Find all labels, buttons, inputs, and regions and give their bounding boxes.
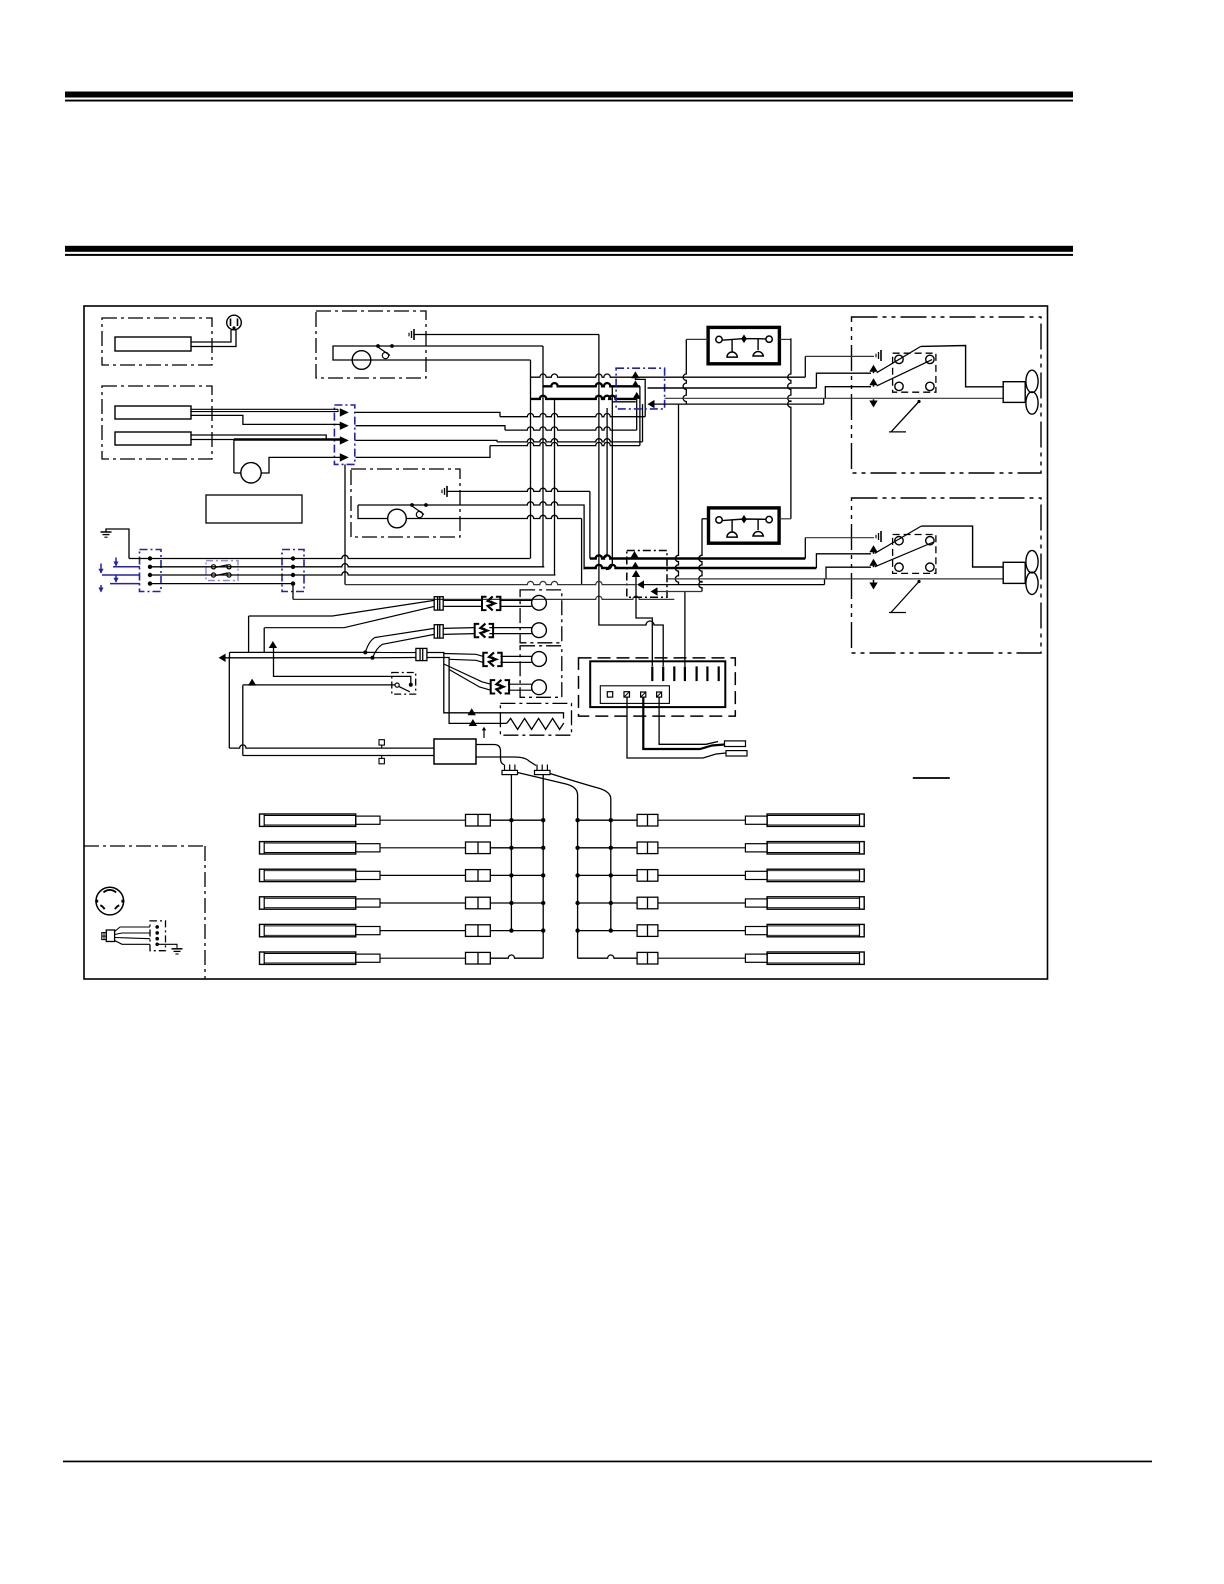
OL2 heater contacts: [731, 520, 733, 532]
freezer lamp element: [115, 337, 191, 351]
indicator lamp: [227, 315, 242, 330]
OL2 lead right: [779, 518, 791, 520]
module vent arrow: [483, 729, 485, 738]
CN5 arrow3 stem: [636, 576, 652, 666]
D arrow2 riser: [826, 567, 871, 579]
cord plug connector: [150, 921, 166, 951]
diagram outer border: [84, 306, 1048, 979]
heater feed wires: [427, 653, 564, 719]
igniter R4 wire: [578, 902, 638, 904]
F2-valve2 wires: [489, 627, 531, 629]
wire element A top to CN1: [191, 408, 338, 410]
U arrow up 2: [869, 378, 877, 385]
C3-F3 diag wires: [444, 654, 484, 657]
branch to C2a: [365, 628, 434, 652]
interlock switch (light blue): [206, 561, 238, 581]
OL1 lead left: [686, 338, 708, 340]
lamp enclosure 2: [102, 386, 212, 459]
C1-F1 wires: [443, 599, 482, 601]
cord ground wire: [157, 944, 177, 948]
footer rule: [63, 1461, 1152, 1463]
board terminal strip: [600, 686, 669, 704]
lamp wires: [191, 330, 231, 342]
row LR2: [505, 427, 637, 430]
cord connector body: [106, 930, 114, 942]
control thermostat T2 enclosure: [351, 469, 460, 537]
OL2 terminals: [716, 517, 722, 523]
CN2 pins: [148, 556, 152, 560]
fork feeds right: [518, 773, 578, 796]
igniter rod R5: [767, 924, 864, 936]
bold row to CN5-2: [584, 565, 816, 568]
harness riser b: [263, 628, 265, 653]
long bus d1c: [606, 386, 612, 569]
nest arrow2 link: [639, 386, 641, 445]
U motor row: [665, 397, 1004, 399]
LR1 jog: [356, 412, 501, 416]
LR2 jog: [356, 426, 506, 430]
wire element B top: [191, 435, 326, 440]
igniter rod L5: [260, 924, 356, 936]
model nameplate: [206, 495, 302, 523]
igniter L4 wire: [490, 902, 543, 904]
board drop 4: [684, 592, 686, 667]
CN3 pins: [291, 556, 295, 560]
up arrow junction: [269, 641, 277, 648]
OL1 center pivot: [741, 335, 747, 344]
surface unit box B: [520, 646, 562, 698]
LR3 jog: [356, 440, 498, 442]
row to C3a: [365, 651, 416, 653]
OL1 bimetal bar: [722, 339, 766, 341]
U actuator mark: [891, 402, 919, 432]
long bus d2: [598, 335, 600, 619]
board output wire 1: [627, 697, 726, 758]
D propeller: [1026, 551, 1038, 573]
T1 contacts: [376, 344, 380, 348]
CN4 arrow1: [631, 371, 639, 378]
cable connector C3: [416, 648, 427, 660]
row to CN4 pin3: [531, 396, 637, 399]
U fan motor: [1003, 382, 1025, 403]
bus V1: [530, 360, 532, 559]
power wire row2: [150, 564, 544, 567]
board output wire 2: [643, 697, 724, 749]
CN5 left arrow2 wire: [658, 591, 703, 593]
OL1 terminals: [716, 336, 722, 342]
CN4 arrow3: [633, 392, 641, 399]
burner valve circle 1: [532, 595, 547, 610]
T1 ground wire: [414, 334, 599, 336]
igniter rod R2: [767, 842, 864, 854]
igniter R3 wire: [578, 874, 638, 876]
strip terminal 3: [641, 692, 646, 697]
nest LR3 link: [642, 404, 644, 442]
cord wires: [115, 927, 150, 932]
row LR1: [500, 414, 645, 417]
T2 ground wire: [447, 488, 590, 491]
harness row lower b: [226, 657, 373, 659]
power wire row3: [150, 572, 555, 575]
D arrow up 1: [869, 545, 877, 552]
A-arrow 2: [248, 679, 256, 686]
T2 motor wire right: [406, 515, 581, 518]
cable connector C2: [434, 625, 443, 638]
igniter rod L3: [260, 869, 356, 881]
CN5 left arrow2: [651, 587, 658, 595]
wire to motor: [233, 440, 235, 474]
U blade 1: [877, 346, 921, 372]
top double rule: [65, 92, 1073, 98]
power wire row4: [150, 583, 293, 585]
relay switch block D: [893, 535, 936, 574]
module input wire 2: [243, 755, 434, 757]
board output wire 3: [659, 697, 718, 744]
U arrow2 riser: [825, 387, 871, 398]
bus B4: [610, 799, 612, 931]
OL2 lead left: [702, 518, 709, 520]
T1 chassis ground: [413, 329, 415, 340]
aux switch feed: [243, 684, 395, 686]
strip terminal 1: [607, 692, 612, 697]
suppressor 2: [379, 758, 384, 763]
supply lead L1 mark: [113, 566, 140, 568]
overload relay OL1 case: [708, 327, 779, 363]
wire element B bottom heavy: [191, 439, 234, 441]
U propeller: [1026, 370, 1038, 392]
CN5 left arrow1: [637, 580, 644, 588]
row LR3: [497, 439, 643, 442]
door switch motor: [241, 463, 261, 483]
igniter rod L1: [260, 814, 356, 826]
plug slots: [104, 890, 117, 893]
harness connector CN1: [334, 405, 354, 464]
F1-valve1 wires: [500, 599, 531, 601]
nest stub row: [612, 401, 636, 403]
OL1 lead right: [779, 338, 791, 340]
bus B2: [542, 775, 544, 959]
suppressor 1: [379, 740, 384, 745]
D chassis ground: [880, 531, 882, 542]
nest arrow1 link: [635, 377, 645, 417]
D blade 1: [875, 526, 921, 553]
wire element A bottom: [191, 415, 340, 425]
board inner case: [590, 661, 725, 707]
igniter rod L4: [260, 897, 356, 909]
interlock contacts: [211, 565, 215, 569]
module output 1: [476, 745, 504, 765]
CN4 left arrow wire: [655, 403, 824, 405]
U down arrow: [869, 401, 877, 408]
igniter switch F3: [483, 653, 488, 666]
bus B1: [510, 775, 512, 931]
U top wire: [921, 346, 1003, 387]
igniter R1 wire: [578, 819, 638, 821]
junction drop right: [274, 647, 411, 685]
lamp element B: [115, 432, 191, 445]
LR4 jog: [356, 446, 491, 458]
U arrow up 1: [869, 365, 877, 372]
module output 2: [476, 757, 536, 766]
wire motor to CN1 pin4: [261, 457, 340, 473]
igniter rod L2: [260, 842, 356, 854]
T2 switch wire right: [358, 502, 584, 505]
igniter R5 wire: [578, 930, 638, 932]
T2 sensing bulb: [358, 505, 388, 519]
aux switch: [395, 683, 399, 687]
D actuator mark: [891, 582, 919, 613]
evaporator fan unit enclosure: [852, 498, 1042, 653]
burner valve circle 3: [532, 652, 547, 667]
cord earth ground: [172, 948, 183, 950]
aux switch box: [392, 673, 416, 695]
spark module: [434, 739, 476, 764]
T2 bellows motor: [388, 509, 407, 528]
second double rule: [65, 246, 1073, 252]
surface unit box A: [520, 590, 562, 643]
F4-valve4 wires: [508, 683, 532, 685]
igniter L5 wire: [490, 930, 543, 932]
D motor row: [667, 578, 1003, 580]
strip terminal 2: [624, 692, 630, 697]
overload relay OL2 case: [709, 508, 780, 543]
harness wire to C1b: [264, 606, 434, 627]
U ground jog: [804, 356, 806, 377]
D top wire: [921, 526, 1003, 567]
distribution fork 2: [535, 770, 551, 774]
LA1 row left: [345, 581, 637, 584]
mid drop b: [583, 505, 585, 570]
D ground jog: [804, 538, 806, 559]
igniter rod R3: [767, 869, 864, 881]
igniter L6 wire: [490, 955, 543, 958]
heater connector arrow 2: [469, 719, 477, 726]
spark module board outline: [579, 658, 736, 716]
igniter switch F2: [475, 624, 480, 637]
strip terminal 4: [657, 692, 662, 697]
service area box: [84, 845, 205, 847]
OL2 bimetal bar: [722, 519, 766, 521]
U feed row2: [648, 387, 817, 389]
CN5 arrow2: [631, 562, 639, 569]
neutral run to board: [293, 596, 674, 599]
bus B3: [577, 795, 579, 958]
T1 sensing bulb: [333, 346, 543, 360]
power connector CN3: [282, 550, 304, 592]
burner valve circle 4: [532, 680, 547, 695]
cord pins: [155, 925, 159, 929]
row to C3b: [373, 657, 417, 659]
U ground wire: [805, 355, 874, 357]
igniter rod R6: [767, 952, 864, 964]
row to CN4 pin2: [543, 383, 640, 386]
U blade 2: [877, 360, 932, 386]
row to CN4 pin1: [531, 374, 806, 377]
board comb terminals: [651, 666, 653, 681]
harness connector CN5: [627, 551, 667, 598]
condenser fan unit enclosure: [852, 317, 1042, 473]
power plug face: [96, 887, 124, 915]
OL2 center pivot: [741, 515, 747, 524]
bus V3: [554, 399, 556, 575]
earth ground main: [101, 531, 112, 533]
mid drop c: [581, 519, 583, 585]
CN1 pin arrows: [340, 408, 349, 416]
harness connector CN4: [616, 368, 665, 409]
link upper-lower LA: [675, 404, 678, 584]
cord connector key: [102, 933, 107, 940]
D contacts: [895, 537, 903, 545]
board lug 2: [726, 751, 747, 756]
CN4 left arrow: [648, 400, 655, 408]
relay feeder left: [683, 339, 686, 404]
heater enclosure: [500, 703, 571, 735]
branch to C2b: [373, 634, 435, 657]
burner valve circle 2: [532, 623, 547, 638]
label tick: [913, 777, 950, 779]
D ground wire: [805, 537, 874, 539]
bus V2: [542, 346, 544, 567]
D blade 2: [875, 542, 934, 567]
row LR4: [490, 442, 640, 445]
long bus d1b: [606, 408, 608, 553]
harness row lower a: [230, 651, 366, 653]
C2-F2 wires: [443, 627, 475, 630]
T1 bellows motor: [352, 351, 371, 370]
supply lead N mark: [102, 574, 140, 576]
igniter switch F4: [491, 680, 496, 693]
igniter L2 wire: [490, 847, 543, 849]
harness wire to C1a: [249, 600, 435, 616]
LA1 row right: [644, 584, 825, 586]
CN4 arrow2: [631, 380, 639, 387]
T2 contacts: [410, 503, 414, 507]
OL2 feeder left: [699, 519, 702, 592]
power row4 drop: [292, 584, 294, 600]
distribution fork 1: [502, 770, 518, 774]
CN5 arrow1: [630, 551, 638, 558]
freezer lamp enclosure: [102, 318, 212, 365]
U contacts: [895, 355, 903, 363]
nest arrow3 link: [636, 399, 638, 430]
input riser 2: [242, 685, 244, 755]
D arrow up 2: [869, 559, 877, 566]
left arrow junction: [219, 654, 226, 662]
control thermostat T1 enclosure: [316, 311, 426, 378]
T2 chassis ground: [446, 486, 448, 497]
ground feed wire: [106, 529, 129, 559]
U chassis ground: [880, 350, 882, 361]
igniter L1 wire: [490, 819, 543, 821]
junction jog: [229, 652, 231, 657]
D arrow1 row: [816, 554, 871, 568]
supply lead L2 mark: [110, 583, 140, 585]
C3-F4 diag wires: [444, 664, 491, 684]
igniter rod R4: [767, 897, 864, 909]
igniter L3 wire: [490, 874, 543, 876]
power connector CN2: [140, 550, 162, 592]
D fan motor: [1003, 562, 1025, 583]
D down arrow: [869, 583, 877, 590]
cable connector C1: [434, 597, 443, 610]
F3-valve3 wires: [500, 655, 531, 657]
bold row to CN5-1: [590, 555, 805, 558]
heater connector arrow 1: [468, 708, 476, 715]
power wire row1: [129, 555, 530, 558]
lamp element A: [115, 406, 191, 419]
igniter R2 wire: [578, 847, 638, 849]
igniter switch F1: [482, 597, 487, 610]
OL1 heater contacts: [731, 340, 733, 352]
relay switch block U: [893, 353, 936, 392]
board lug 1: [725, 741, 746, 747]
igniter rod R1: [767, 814, 864, 826]
relay feeder right: [788, 338, 791, 518]
wire CN1 shell down: [344, 464, 346, 584]
harness riser a: [248, 616, 250, 652]
module input wire 1: [229, 745, 434, 748]
CN5 arrow3: [632, 570, 640, 577]
mid drop a: [589, 491, 591, 558]
input riser 1: [228, 658, 230, 748]
igniter rod L6: [260, 952, 356, 964]
igniter R6 wire: [578, 955, 638, 958]
heater element zigzag: [507, 718, 564, 729]
